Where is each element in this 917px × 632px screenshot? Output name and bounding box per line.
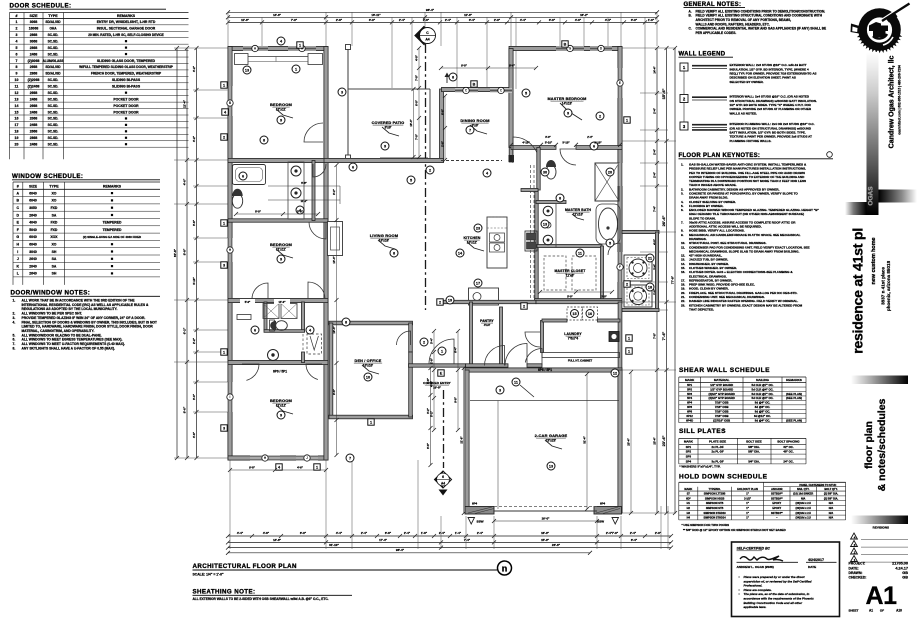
svg-text:2: 2 [423, 340, 425, 344]
svg-text:SCALE: 1/4" = 1'-0": SCALE: 1/4" = 1'-0" [193, 572, 224, 576]
svg-text:(26)16d x 2.5: (26)16d x 2.5 [796, 501, 812, 505]
svg-text:PROJECT:: PROJECT: [849, 562, 866, 566]
svg-text:3'-0": 3'-0" [369, 18, 376, 22]
svg-text:COVERED PATIO: COVERED PATIO [372, 121, 405, 125]
svg-text:3'-10": 3'-10" [545, 141, 553, 145]
svg-text:9'-2": 9'-2" [332, 188, 336, 195]
svg-text:* USE SIMPSON FOR TWO POURS: * USE SIMPSON FOR TWO POURS [682, 523, 730, 527]
svg-text:FLOOR PLAN KEYNOTES:: FLOOR PLAN KEYNOTES: [679, 153, 761, 159]
svg-text:XO: XO [52, 191, 57, 195]
patio sliding door [380, 158, 428, 160]
general notes [684, 2, 827, 35]
bottom dimension lines [228, 535, 671, 537]
svg-text:9'-10": 9'-10" [594, 141, 602, 145]
svg-text:7'-4": 7'-4" [464, 538, 471, 542]
svg-text:B: B [564, 43, 567, 47]
svg-text:SP1: SP1 [686, 445, 692, 449]
svg-text:2'-4": 2'-4" [439, 531, 446, 535]
svg-text:SSTB16**: SSTB16** [771, 492, 783, 496]
svg-text:H3: H3 [687, 511, 691, 515]
svg-text:SILL PLATES: SILL PLATES [679, 428, 726, 435]
svg-text:3'-10": 3'-10" [192, 277, 196, 285]
kitchen counters [487, 217, 507, 268]
kitchen/master divider [537, 148, 540, 191]
svg-text:9: 9 [280, 413, 282, 417]
svg-text:4040: 4040 [29, 221, 37, 225]
svg-text:INSUL. SECTIONAL GARAGE DOOR: INSUL. SECTIONAL GARAGE DOOR [97, 27, 156, 31]
svg-text:* WASHERS 3"x3"x1/4", TYP.: * WASHERS 3"x3"x1/4", TYP. [679, 465, 720, 469]
svg-text:13: 13 [549, 464, 553, 468]
svg-text:6040: 6040 [29, 235, 37, 239]
svg-text:14'-6": 14'-6" [273, 13, 281, 17]
svg-text:8d @6" OC.: 8d @6" OC. [755, 405, 771, 409]
svg-text:3'-0": 3'-0" [631, 18, 638, 22]
wall type square markers [471, 81, 477, 87]
svg-text:SSTB24**: SSTB24** [771, 511, 783, 515]
svg-text:11'-4": 11'-4" [183, 99, 187, 108]
svg-text:J: J [306, 456, 308, 460]
svg-text:SC.SD.: SC.SD. [48, 39, 59, 43]
svg-text:3040: 3040 [29, 250, 37, 254]
svg-text:1": 1" [746, 516, 749, 520]
svg-text:2'-8": 2'-8" [423, 18, 430, 22]
svg-text:11'x11': 11'x11' [276, 248, 286, 252]
keynote circles [292, 65, 300, 73]
svg-text:20 MIN. RATED, 1-HR SC, SELF-C: 20 MIN. RATED, 1-HR SC, SELF-CLOSING DEV… [88, 33, 164, 37]
svg-text:3.: 3. [681, 191, 684, 195]
revision triangles [851, 533, 858, 539]
svg-text:4: 4 [16, 39, 18, 43]
svg-text:PLATE SIZE: PLATE SIZE [709, 440, 726, 444]
svg-text:9.: 9. [681, 233, 684, 237]
svg-text:16'-4": 16'-4" [409, 119, 413, 127]
svg-text:4'-10": 4'-10" [522, 141, 530, 145]
svg-text:10: 10 [15, 78, 19, 82]
svg-text:26'-6": 26'-6" [552, 543, 561, 547]
svg-text:7'-6": 7'-6" [612, 531, 619, 535]
den/office walls [329, 321, 413, 325]
svg-text:14'-4": 14'-4" [653, 66, 657, 74]
shear wall schedule [679, 367, 806, 423]
svg-text:POCKET DOOR: POCKET DOOR [113, 97, 139, 101]
svg-text:1: 1 [316, 466, 318, 470]
master bath shower [595, 163, 619, 201]
svg-text:9'x9': 9'x9' [385, 126, 392, 130]
svg-text:2: 2 [223, 136, 225, 140]
svg-text:6'-0": 6'-0" [300, 531, 307, 535]
svg-text:4'-2": 4'-2" [192, 65, 196, 72]
svg-text:8: 8 [452, 75, 454, 79]
svg-text:A1: A1 [869, 609, 873, 613]
svg-text:8: 8 [16, 65, 18, 69]
exterior walls: left bedroom wing [228, 46, 328, 50]
svg-text:9'-6": 9'-6" [509, 63, 516, 67]
master toilet [546, 165, 556, 179]
svg-text:1'-6": 1'-6" [648, 18, 655, 22]
svg-text:5'-8": 5'-8" [297, 209, 304, 213]
svg-text:2'-4": 2'-4" [653, 148, 657, 155]
svg-text:6'-2": 6'-2" [183, 327, 187, 334]
svg-text:13: 13 [15, 97, 19, 101]
master tub [596, 204, 620, 244]
svg-text:7'-0": 7'-0" [291, 18, 298, 22]
svg-text:L: L [17, 272, 20, 276]
svg-text:6P6: 6P6 [687, 405, 692, 409]
svg-text:A1: A1 [866, 582, 898, 610]
svg-text:A: A [17, 191, 20, 195]
svg-text:SC.SD.: SC.SD. [48, 91, 59, 95]
svg-text:2640: 2640 [29, 213, 37, 217]
svg-text:9'-6": 9'-6" [332, 388, 336, 395]
svg-text:KITCHEN: KITCHEN [463, 236, 480, 240]
svg-text:applicable laws.: applicable laws. [744, 605, 767, 609]
svg-text:2: 2 [626, 283, 628, 287]
svg-text:1'-8": 1'-8" [421, 531, 428, 535]
svg-text:3: 3 [16, 33, 18, 37]
svg-text:EPOXY: EPOXY [772, 506, 781, 510]
svg-text:TYPE/NO.: TYPE/NO. [709, 487, 721, 491]
svg-text:23.: 23. [681, 303, 685, 307]
svg-text:5/8" DIA.: 5/8" DIA. [748, 445, 760, 449]
svg-text:WINDOW SCHEDULE:: WINDOW SCHEDULE: [12, 173, 83, 180]
master vanity [555, 204, 557, 248]
horizontal bar left [845, 202, 867, 215]
svg-text:2'-4": 2'-4" [404, 531, 411, 535]
svg-text:2'-8": 2'-8" [336, 18, 343, 22]
svg-text:FULL HT. CABINET: FULL HT. CABINET [568, 359, 593, 363]
svg-text:N/A: N/A [829, 516, 834, 520]
svg-text:BEDROOM: BEDROOM [270, 102, 292, 107]
svg-text:SHEATHING NOTE:: SHEATHING NOTE: [193, 589, 256, 596]
sheathing note [193, 589, 353, 602]
door/window notes [11, 290, 161, 351]
svg-text:7.: 7. [681, 220, 684, 224]
svg-text:SSTB16**: SSTB16** [771, 496, 783, 500]
master suite exterior [509, 46, 622, 50]
sill plates [679, 427, 806, 469]
svg-text:BEDROOM: BEDROOM [270, 398, 292, 403]
svg-text:5d CLR @4" OC.: 5d CLR @4" OC. [752, 396, 774, 400]
svg-text:8d @4" OC.: 8d @4" OC. [755, 418, 771, 422]
svg-text:2'-4": 2'-4" [587, 136, 593, 139]
svg-text:2'-4": 2'-4" [445, 18, 452, 22]
svg-text:4'-6": 4'-6" [297, 465, 304, 469]
svg-text:MARK: MARK [684, 440, 694, 444]
svg-text:E: E [17, 221, 20, 225]
svg-text:SLIDING GLASS DOOR, TEMPERED: SLIDING GLASS DOOR, TEMPERED [97, 59, 156, 63]
svg-text:4'-8": 4'-8" [263, 531, 270, 535]
svg-text:OGAS: OGAS [868, 186, 875, 206]
svg-text:16'-0": 16'-0" [541, 531, 549, 535]
svg-text:1'-4": 1'-4" [455, 531, 462, 535]
svg-text:3'-6": 3'-6" [192, 219, 196, 226]
svg-text:98'-4": 98'-4" [426, 8, 435, 12]
svg-text:POCKET DOOR: POCKET DOOR [113, 110, 139, 114]
svg-text:1": 1" [746, 506, 749, 510]
self-certified box [732, 542, 840, 617]
svg-text:REVISIONS: REVISIONS [873, 526, 889, 530]
top dimension lines [228, 11, 657, 13]
svg-text:& notes/schedules: & notes/schedules [876, 398, 888, 491]
overhead soffit dashed [530, 165, 532, 302]
svg-text:1: 1 [16, 20, 18, 24]
svg-text:SELF-CERTIFIED BC: SELF-CERTIFIED BC [737, 547, 771, 551]
svg-text:11: 11 [578, 251, 582, 255]
svg-text:15'-4": 15'-4" [661, 88, 666, 99]
door arcs [304, 123, 323, 142]
svg-text:--: -- [776, 517, 778, 520]
master closet shelves [544, 256, 566, 290]
svg-text:(2)1/2" GYP BOARD: (2)1/2" GYP BOARD [709, 392, 735, 396]
svg-text:WALL LEGEND: WALL LEGEND [679, 52, 726, 58]
svg-text:3'-10": 3'-10" [562, 141, 570, 145]
svg-text:DEN / OFFICE: DEN / OFFICE [355, 359, 382, 363]
svg-text:N/A: N/A [829, 501, 834, 505]
svg-text:13: 13 [543, 222, 547, 226]
svg-text:48" OC.: 48" OC. [783, 450, 793, 454]
svg-text:7'-0": 7'-0" [415, 133, 419, 140]
svg-text:SC.SD.: SC.SD. [48, 110, 59, 114]
svg-text:new custom home: new custom home [871, 237, 877, 284]
svg-text:4'-6": 4'-6" [183, 178, 187, 185]
section marker top [415, 27, 433, 45]
svg-text:6040: 6040 [29, 243, 37, 247]
svg-text:SD/AL/GD: SD/AL/GD [45, 72, 61, 76]
svg-text:14'x13': 14'x13' [562, 102, 573, 106]
svg-text:2668: 2668 [30, 130, 38, 134]
svg-text:16'-0": 16'-0" [542, 516, 550, 520]
svg-text:23'-4": 23'-4" [627, 438, 631, 446]
svg-text:14: 14 [15, 104, 19, 108]
svg-text:11: 11 [15, 85, 19, 89]
svg-text:SP4: SP4 [686, 460, 692, 464]
svg-text:2468: 2468 [30, 123, 38, 127]
dining-to-hall door [513, 137, 539, 163]
bath1 tub [233, 165, 266, 185]
svg-text:7/16" OSB: 7/16" OSB [715, 405, 729, 409]
svg-text:31'-10": 31'-10" [329, 543, 339, 547]
svg-text:19: 19 [15, 136, 19, 140]
svg-text:7/16" OSB: 7/16" OSB [715, 414, 729, 418]
svg-text:7'-4": 7'-4" [653, 205, 657, 212]
svg-text:1: 1 [626, 119, 628, 123]
svg-text:BOLT SIZE: BOLT SIZE [746, 440, 761, 444]
svg-text:SA: SA [52, 264, 57, 268]
svg-text:BOLT SPACING: BOLT SPACING [777, 440, 800, 444]
svg-text:10'-4": 10'-4" [332, 326, 336, 334]
svg-text:(26)16d x 2.5: (26)16d x 2.5 [796, 511, 812, 515]
dims under bedroom3 [230, 469, 326, 471]
garage shear panels [465, 507, 494, 515]
svg-text:5: 5 [16, 46, 18, 50]
svg-text:SIMPSON HD2B: SIMPSON HD2B [705, 496, 725, 500]
svg-text:SD/AL/GD: SD/AL/GD [45, 20, 61, 24]
svg-text:3: 3 [499, 388, 501, 392]
left dimension lines [176, 48, 178, 458]
svg-text:7: 7 [349, 456, 351, 460]
svg-text:SC.SD.: SC.SD. [48, 136, 59, 140]
svg-text:3'-4": 3'-4" [469, 18, 476, 22]
svg-text:9'-6": 9'-6" [183, 406, 187, 413]
svg-text:ARCHITECTURAL FLOOR PLAN: ARCHITECTURAL FLOOR PLAN [193, 563, 297, 570]
bath1 vanity cabinet [288, 162, 304, 219]
svg-text:2040: 2040 [29, 264, 37, 268]
svg-text:5P1: 5P1 [687, 383, 692, 387]
svg-text:SIMPSON STB: SIMPSON STB [706, 506, 724, 510]
svg-text:GB: GB [902, 576, 908, 580]
svg-text:9'-8": 9'-8" [249, 465, 256, 469]
outdoor kitchen [622, 230, 659, 233]
svg-text:N/A: N/A [829, 511, 834, 515]
svg-text:MASTER BEDROOM: MASTER BEDROOM [547, 97, 586, 101]
svg-text:BOLT QTY.: BOLT QTY. [824, 487, 838, 491]
svg-text:(2)3068: (2)3068 [28, 59, 40, 63]
svg-text:5040: 5040 [29, 228, 37, 232]
svg-text:2: 2 [16, 27, 18, 31]
svg-text:5: 5 [609, 241, 611, 245]
windows [243, 46, 268, 50]
bedroom1 wardrobe band [235, 54, 249, 65]
svg-text:8.: 8. [13, 346, 16, 350]
svg-text:9: 9 [280, 118, 282, 122]
svg-text:FXD: FXD [51, 228, 58, 232]
svg-text:1.: 1. [681, 163, 684, 167]
svg-text:2'-0": 2'-0" [494, 18, 501, 22]
svg-text:6P6 / 5P1: 6P6 / 5P1 [273, 370, 287, 374]
svg-text:2'-4": 2'-4" [399, 18, 406, 22]
svg-text:9: 9 [280, 257, 282, 261]
svg-text:DOOR/WINDOW NOTES:: DOOR/WINDOW NOTES: [11, 290, 91, 297]
svg-text:ENTRY DR, W/SIDELIGHT, 1-HR RT: ENTRY DR, W/SIDELIGHT, 1-HR RTD [97, 20, 156, 24]
svg-text:SIMPSON STHD14: SIMPSON STHD14 [703, 516, 726, 520]
master bedroom bottom wall [511, 146, 556, 150]
svg-text:•: • [739, 592, 741, 596]
svg-text:REMARKS: REMARKS [786, 378, 802, 382]
svg-text:8d @12" OC.: 8d @12" OC. [754, 414, 771, 418]
svg-text:(SEE PLAN): (SEE PLAN) [786, 392, 802, 396]
svg-text:1.: 1. [13, 299, 16, 303]
svg-text:XOX: XOX [50, 235, 58, 239]
svg-text:MASTER BATH: MASTER BATH [565, 208, 591, 212]
svg-text:4'-4": 4'-4" [336, 531, 343, 535]
svg-text:13: 13 [245, 68, 249, 72]
svg-text:I: I [17, 250, 18, 254]
svg-text:H1: H1 [687, 501, 691, 505]
covered patio [440, 89, 444, 160]
svg-text:3: 3 [341, 90, 343, 94]
svg-text:3068: 3068 [30, 39, 38, 43]
svg-text:SC.SD.: SC.SD. [48, 143, 59, 147]
right dimension lines [656, 48, 658, 513]
vertical gradient bar [867, 52, 879, 215]
svg-text:2: 2 [429, 168, 431, 172]
interior dimension strings [433, 331, 435, 430]
svg-text:7: 7 [469, 128, 471, 132]
dining room walls [442, 87, 512, 91]
svg-text:MARK: MARK [684, 487, 692, 491]
svg-text:5d CLR @4" OC.: 5d CLR @4" OC. [752, 387, 774, 391]
svg-text:THAT DEPICTED.: THAT DEPICTED. [689, 307, 714, 311]
master wing bottom wall [535, 299, 623, 303]
svg-text:60'-8": 60'-8" [173, 248, 177, 257]
svg-text:E: E [440, 372, 443, 376]
svg-text:H: H [17, 243, 20, 247]
svg-text:23: 23 [476, 226, 480, 230]
svg-text:8'-0": 8'-0" [255, 209, 262, 213]
svg-text:4'-4": 4'-4" [605, 18, 612, 22]
svg-text:CHECKED:: CHECKED: [849, 576, 867, 580]
svg-text:5/8" DIA.: 5/8" DIA. [748, 450, 760, 454]
svg-text:1/2" GYP BOARD: 1/2" GYP BOARD [710, 387, 733, 391]
svg-text:6'-4": 6'-4" [631, 538, 638, 542]
svg-text:F: F [17, 228, 20, 232]
svg-text:2868: 2868 [30, 33, 38, 37]
svg-text:6P4: 6P4 [472, 501, 478, 505]
svg-text:16: 16 [15, 117, 19, 121]
svg-text:5P2: 5P2 [687, 387, 692, 391]
svg-text:4'-4": 4'-4" [430, 380, 434, 387]
range [525, 231, 537, 251]
svg-text:7/16" OSB: 7/16" OSB [715, 401, 729, 405]
svg-text:6'-0": 6'-0" [415, 99, 419, 106]
svg-text:SSW: SSW [597, 519, 604, 523]
svg-text:J: J [17, 257, 19, 261]
svg-text:4'-6": 4'-6" [192, 431, 196, 438]
svg-text:6P8: 6P8 [687, 410, 692, 414]
svg-text:17: 17 [15, 123, 19, 127]
svg-text:TEMPERED: TEMPERED [103, 228, 122, 232]
svg-text:SELECTED BY OWNER.: SELECTED BY OWNER. [730, 80, 764, 84]
svg-text:SA: SA [52, 257, 57, 261]
svg-text:21: 21 [648, 256, 652, 260]
svg-text:6: 6 [352, 165, 354, 169]
svg-text:1": 1" [746, 511, 749, 515]
svg-text:32" OC.: 32" OC. [783, 445, 793, 449]
bath1 hall wall [312, 161, 315, 221]
svg-text:5'-8": 5'-8" [301, 182, 307, 185]
svg-text:16068: 16068 [29, 27, 39, 31]
svg-text:8d @4" OC.: 8d @4" OC. [755, 401, 771, 405]
svg-text:4.: 4. [13, 320, 16, 324]
svg-text:N/A: N/A [801, 496, 806, 500]
svg-text:MARK: MARK [685, 378, 695, 382]
svg-text:9'-8": 9'-8" [454, 396, 458, 402]
svg-text:7: 7 [16, 59, 18, 63]
svg-text:SHEET: SHEET [849, 609, 859, 613]
svg-text:5: 5 [525, 91, 527, 95]
svg-text:5d CLR @7" OC.: 5d CLR @7" OC. [752, 383, 774, 387]
svg-text:SP3: SP3 [686, 455, 692, 459]
svg-text:SC.SD.: SC.SD. [48, 123, 59, 127]
svg-text:PLUMBING FIXTURE WALLS.: PLUMBING FIXTURE WALLS. [730, 139, 772, 143]
svg-text:SC.SD.: SC.SD. [48, 117, 59, 121]
garage interior lines [470, 400, 619, 402]
gradient separator bars [851, 376, 908, 385]
svg-text:2: 2 [523, 305, 525, 309]
garage walls [465, 368, 622, 372]
bath2 vanity counter [237, 315, 251, 320]
svg-text:9: 9 [16, 72, 18, 76]
wall legend [679, 52, 817, 143]
svg-text:FXD: FXD [51, 206, 58, 210]
svg-text:D: D [17, 213, 20, 217]
svg-text:10: 10 [366, 375, 370, 379]
svg-text:I: I [230, 395, 231, 399]
svg-text:PANEL FASTENERS TO STUD: PANEL FASTENERS TO STUD [799, 483, 836, 487]
svg-text:B: B [17, 199, 20, 203]
svg-text:2468: 2468 [30, 52, 38, 56]
svg-text:SIMPSON STHD10: SIMPSON STHD10 [703, 511, 726, 515]
